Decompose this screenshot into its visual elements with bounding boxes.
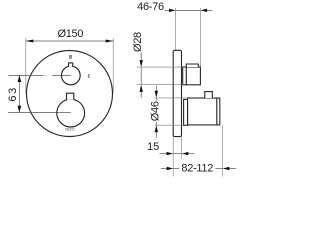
svg-text:15: 15 — [147, 141, 159, 153]
dim 63 dimension line — [18, 75, 20, 112]
wall plate side profile — [173, 50, 181, 136]
svg-text:82-112: 82-112 — [181, 162, 213, 174]
upper knob mark right — [88, 74, 90, 78]
dim 82-112 extension line right — [222, 125, 224, 176]
dim 82-112 arrow left — [167, 167, 174, 170]
lower knob circle — [57, 99, 85, 127]
svg-text:Ø28: Ø28 — [132, 32, 144, 52]
lower knob side tab — [205, 92, 213, 98]
dim 82-112 arrow right — [223, 167, 230, 170]
dim 15 extension line right — [181, 137, 183, 159]
dim Ø46 arrow bottom — [155, 125, 158, 132]
upper knob tab — [69, 63, 73, 67]
dim 15 arrow right — [182, 152, 189, 155]
centerline lower knob — [8, 111, 71, 113]
dim Ø150 arrow left — [26, 39, 34, 42]
dim 63 arrow bottom — [18, 106, 22, 113]
upper knob side body — [183, 67, 201, 85]
dim 46-76 dimension line — [164, 9, 169, 11]
dim Ø150 extension line right — [112, 38, 114, 93]
lower knob side body — [188, 98, 220, 125]
centerline upper knob — [9, 74, 44, 76]
svg-text:63: 63 — [7, 86, 19, 101]
dim Ø28 dimension line — [140, 52, 142, 60]
upper knob side tab — [186, 64, 198, 67]
lower knob side cap line — [216, 98, 218, 125]
dim 46-76 arrow right — [200, 9, 207, 12]
dim Ø28 arrow top — [140, 60, 143, 67]
dim 46-76 extension line right — [199, 8, 201, 67]
dim 82-112 dimension line — [161, 168, 167, 170]
lower knob side collar — [184, 100, 188, 126]
dim Ø150 dimension line — [26, 40, 113, 42]
dim Ø150 arrow right — [106, 39, 114, 42]
svg-text:KEUCO: KEUCO — [65, 128, 75, 132]
dim Ø28 arrow bottom — [140, 85, 143, 92]
dim Ø46 extension line top — [155, 97, 188, 99]
dim 63 arrow top — [18, 75, 22, 82]
upper knob mark 0 — [69, 55, 72, 59]
dim Ø46 dimension line — [155, 86, 157, 91]
upper knob circle — [61, 66, 80, 85]
dim Ø28 extension line top — [137, 66, 183, 68]
dim Ø150 extension line left — [25, 38, 27, 93]
dim 15 arrow left — [167, 152, 174, 155]
dim 46-76 arrow left — [169, 9, 176, 12]
front view cover plate circle — [27, 51, 113, 137]
dim Ø28 extension line bottom — [137, 83, 183, 85]
svg-text:46-76: 46-76 — [137, 1, 164, 13]
svg-text:Ø46: Ø46 — [150, 101, 162, 121]
upper knob side collar line — [185, 67, 187, 85]
dim Ø46 arrow top — [155, 91, 158, 98]
side view: dim 46-76 extension line left — [175, 8, 177, 51]
dim Ø46 extension line bottom — [155, 124, 184, 126]
svg-text:Ø150: Ø150 — [57, 28, 83, 40]
lower knob tab — [67, 93, 74, 100]
dim 15 dimension line — [160, 153, 167, 155]
dim 15 extension line left — [172, 137, 174, 177]
